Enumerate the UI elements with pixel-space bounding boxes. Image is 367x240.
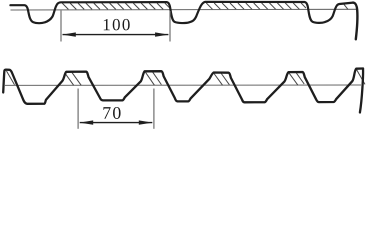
dimension 70 right arrowhead xyxy=(139,120,153,124)
dimension 100 left extension line xyxy=(60,11,62,42)
bottom profile: right cut edge going down xyxy=(360,69,363,113)
bottom profile: thin mid-depth line xyxy=(5,84,361,86)
top profile: section hatching of left 100-flange xyxy=(62,3,169,9)
dimension label "70" xyxy=(103,107,120,119)
dimension 100 dimension line xyxy=(63,34,169,36)
bottom profile: section hatching in trapezoidal crests xyxy=(7,70,366,86)
bottom profile: trapezoidal sheet outline with left cut edge xyxy=(3,69,363,104)
dimension 100 right arrowhead xyxy=(155,32,169,36)
dimension 100 right extension line xyxy=(169,11,171,42)
dimension 70 left arrowhead xyxy=(80,120,94,124)
dimension 70 dimension line xyxy=(80,122,153,124)
dimension 100 left arrowhead xyxy=(62,32,76,36)
top profile: section hatching of right flange xyxy=(206,3,306,9)
top profile: hatching of right edge flat xyxy=(344,4,348,9)
dimension label "100" xyxy=(104,19,130,30)
dimension 70 right extension line xyxy=(153,89,155,129)
top profile: thin under-surface line xyxy=(11,8,357,11)
top profile: right sheet edge bent down xyxy=(353,3,357,40)
top profile: sheet outline (flats and rounded ribs) xyxy=(10,2,353,23)
dimension 70 left extension line xyxy=(77,89,79,129)
